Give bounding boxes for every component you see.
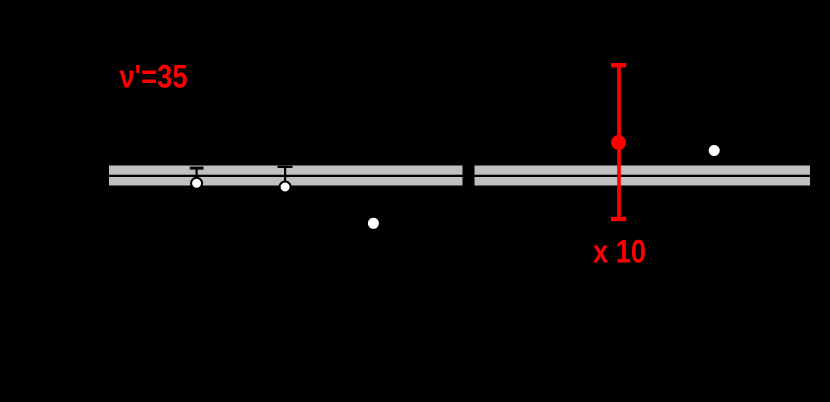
svg-text:ν'=35: ν'=35 [120, 59, 188, 95]
svg-text:x 10: x 10 [593, 234, 646, 270]
